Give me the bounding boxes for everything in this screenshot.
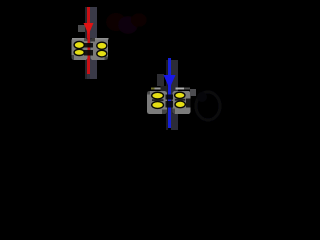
- electron pair 1 left-top: [74, 41, 84, 48]
- arrow 2 shadow column: [166, 60, 168, 130]
- molecule 2 bond dark bar bottom: [166, 101, 174, 108]
- molecule 2 right box corner shades: [173, 109, 176, 115]
- ghost molecule blob top-middle: [106, 13, 147, 34]
- electron pair 1 right-bottom: [97, 50, 107, 57]
- molecule 2 bond dark bar top: [166, 95, 174, 100]
- electron pair 2 left-bottom: [152, 102, 164, 109]
- electron pair 2 right-top: [175, 92, 185, 98]
- blue arrow shaft: [168, 58, 171, 128]
- molecule 2 left box top bar olive end: [151, 87, 155, 89]
- molecule 2 right box dark patch: [186, 99, 191, 108]
- molecule 2 right box top bar: [176, 88, 185, 90]
- molecule 1 right box corner shades: [105, 57, 109, 61]
- molecule 1 bond dark bar bottom: [84, 50, 93, 56]
- red arrow shaft: [87, 7, 90, 74]
- ghost ring bottom-right: [196, 92, 220, 120]
- arrowhead 2 shadow lower patch: [161, 86, 168, 91]
- arrow 1 shadow column: [85, 7, 87, 79]
- red arrowhead: [84, 23, 94, 35]
- arrowhead 2 shadow square: [157, 74, 164, 86]
- electron pair 1 left-bottom: [74, 49, 84, 55]
- electron pair 1 right-top: [97, 42, 107, 49]
- molecule 1 left atom box: [72, 38, 88, 60]
- molecule 1 box top highlight left: [72, 38, 86, 39]
- bond shadow between left pair molecule 2: [152, 99, 164, 101]
- molecule 1 right box top-left dark patch: [91, 38, 96, 42]
- molecule 2 left box top bar: [155, 87, 161, 89]
- arrowhead 1 shadow square: [78, 25, 85, 32]
- molecule 2 left box corner shades: [147, 91, 150, 95]
- molecule 1 bond dark bar top: [84, 43, 93, 48]
- electron pair 2 right-bottom: [175, 101, 185, 108]
- molecule 2 gray notch right: [190, 89, 196, 96]
- bond shadow between right pair molecule 2: [175, 99, 186, 101]
- molecule 1 box top highlight right: [95, 38, 109, 39]
- molecule 2 right box top bar dim tail: [184, 88, 190, 90]
- blue arrowhead: [164, 75, 176, 89]
- molecule 1 right atom box: [91, 38, 109, 60]
- electron pair 2 left-top: [152, 92, 164, 99]
- molecule 2 left atom box: [147, 91, 167, 114]
- molecule 2 right atom box: [173, 91, 191, 114]
- molecule 1 left box corner shades: [72, 55, 75, 60]
